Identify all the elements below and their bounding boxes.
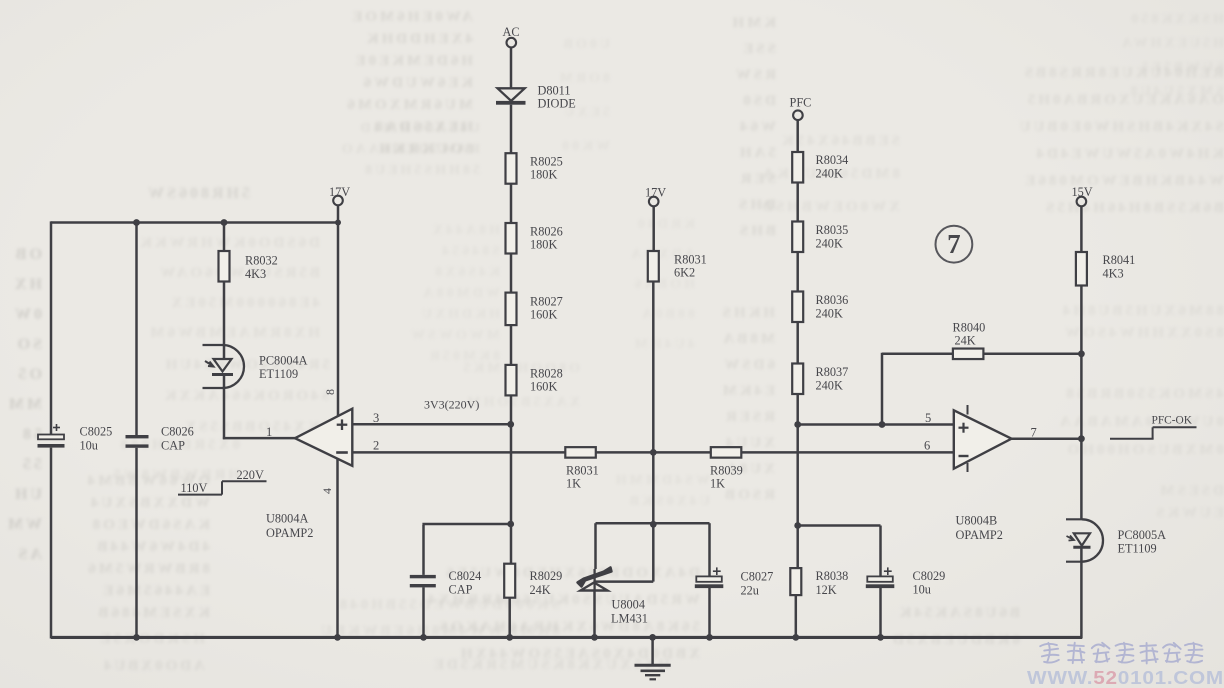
- junction bus / R8038: [792, 634, 799, 641]
- resistor R8034 240K: [792, 152, 848, 183]
- resistor R8036 240K: [792, 292, 848, 323]
- wire R8034 to R8035: [796, 183, 799, 222]
- wire opto PC8005A to ground bus: [1080, 547, 1083, 638]
- pin 1 label (op-amp U8004A output): [266, 425, 272, 439]
- capacitor C8024 CAP: [410, 569, 481, 597]
- node PFC terminal: [790, 96, 812, 120]
- junction top bus / 17V drop: [335, 220, 341, 226]
- capacitor C8029 10u (electrolytic): [866, 567, 945, 596]
- wire D8011 to R8025: [510, 105, 513, 154]
- resistor R8031 1K (horizontal): [565, 447, 598, 490]
- wire C8026 bottom lead: [135, 448, 138, 638]
- resistor R8028 160K: [506, 365, 563, 396]
- label node 3V3(220V): [424, 398, 479, 412]
- node 17V terminal (middle): [645, 186, 666, 207]
- resistor R8032 4K3: [219, 251, 278, 282]
- junction bus / LM431 anode: [591, 634, 598, 641]
- resistor R8029 24K: [504, 564, 562, 598]
- junction bus / R8029: [506, 634, 513, 641]
- wire R8025 to R8026: [510, 184, 513, 223]
- label circled figure 7: [936, 226, 973, 263]
- wire pin 3 (non-inverting input) to divider node: [352, 423, 511, 426]
- wire C8025 bottom lead: [50, 448, 53, 639]
- op-amp U8004B (comparator, points right): [954, 405, 1012, 472]
- junction bus / op-amp pin4: [334, 634, 341, 641]
- wire between R8031 and R8039: [596, 451, 711, 454]
- wire pin 8 supply (17V rail down into op-amp top): [337, 223, 340, 417]
- wire pin 5 (non-inverting) line: [798, 423, 954, 426]
- wire LM431 cathode loop top: [596, 522, 710, 525]
- resistor R8039 1K (horizontal): [710, 447, 743, 490]
- wire pin 4 to ground bus: [336, 459, 339, 638]
- junction PFC divider / C8029 link: [794, 522, 801, 529]
- junction 6K2 branch / inverting bus: [650, 449, 657, 456]
- junction bus / C8029: [877, 634, 884, 641]
- wire C8027 bottom lead: [708, 588, 711, 637]
- wire R8028 down to R8029: [510, 395, 513, 563]
- resistor R8031 6K2: [648, 251, 707, 282]
- shunt regulator U8004 LM431: [578, 568, 648, 626]
- wire LM431 cathode drop: [594, 523, 597, 569]
- junction divider / C8024 jumper: [507, 521, 514, 528]
- wire C8026 top lead: [135, 223, 138, 436]
- optocoupler PC8005A ET1109 (LED side): [1066, 519, 1166, 561]
- wire R8036 to R8037: [796, 322, 799, 364]
- wire C8029 bottom lead: [879, 588, 882, 637]
- node 15V terminal: [1072, 185, 1093, 206]
- capacitor C8027 22u (electrolytic): [695, 523, 773, 597]
- wire C8029 link: [797, 526, 881, 577]
- wire R8027 to R8028: [510, 325, 513, 365]
- wire R8032 top lead: [223, 223, 226, 252]
- node PFC-OK output flag: [1110, 415, 1197, 439]
- wire 17V drop to top bus: [337, 205, 340, 222]
- resistor R8035 240K: [792, 222, 848, 253]
- capacitor C8025 10u (electrolytic): [38, 424, 113, 453]
- capacitor C8026 CAP: [126, 425, 194, 453]
- wire op-amp output to rail: [1011, 437, 1081, 440]
- pin 6 label: [924, 439, 930, 453]
- resistor R8041 4K3: [1076, 252, 1135, 286]
- wire R8040 feedback loop: [882, 353, 1081, 425]
- resistor R8025 180K: [506, 153, 563, 184]
- wire C8024 top jumper: [422, 524, 510, 575]
- node 220V/110V line-voltage step marks: [178, 468, 267, 495]
- wire PFC drop: [796, 120, 799, 152]
- wire R8038 bottom lead: [795, 595, 798, 637]
- junction bus / C8027: [706, 634, 713, 641]
- wire AC drop: [510, 47, 513, 88]
- label U8004A OPAMP2: [266, 512, 313, 541]
- resistor R8037 240K: [792, 364, 848, 395]
- wire R8041 down the output rail: [1080, 286, 1083, 519]
- wire 17V mid drop: [652, 206, 655, 251]
- ground symbol: [635, 665, 671, 679]
- junction output rail / op-amp output: [1078, 435, 1085, 442]
- pin 3 label: [373, 411, 379, 425]
- resistor R8038 12K: [790, 568, 848, 597]
- pin 7 label: [1031, 426, 1037, 440]
- pin 5 label: [925, 411, 931, 425]
- junction top bus / C8026: [133, 219, 140, 226]
- wire LM431 anode to bus: [593, 591, 596, 638]
- junction bus / C8026: [133, 634, 140, 641]
- junction pin5 / R8040 feedback: [879, 421, 886, 428]
- diode D8011 DIODE: [496, 84, 576, 111]
- node AC terminal: [503, 25, 520, 47]
- resistor R8040 24K (horizontal): [953, 321, 986, 360]
- junction bus / ground stem: [649, 634, 656, 641]
- wire 15V drop: [1080, 206, 1083, 252]
- junction PFC divider / pin5 line: [794, 421, 801, 428]
- wire top bus 17V rail: [51, 221, 338, 223]
- junction output rail / R8040: [1078, 350, 1085, 357]
- junction top bus / R8032: [221, 219, 228, 226]
- watermark url line: [1027, 668, 1224, 688]
- label U8004B OPAMP2: [956, 514, 1003, 543]
- junction bus / C8024: [420, 634, 427, 641]
- wire R8026 to R8027: [510, 254, 513, 293]
- junction divider tap / pin3: [507, 421, 514, 428]
- resistor R8026 180K: [506, 223, 563, 254]
- wire LM431 ref line: [595, 580, 654, 583]
- wire R8031 6K2 down to bus: [652, 282, 655, 582]
- optocoupler PC8004A ET1109 (LED side): [203, 345, 308, 388]
- wire ground stem: [651, 637, 654, 664]
- wire R8032 to optocoupler LED: [223, 282, 226, 360]
- pin 4 label (rotated): [320, 488, 334, 494]
- resistor R8027 160K: [506, 293, 563, 326]
- node 17V terminal (left): [329, 185, 350, 205]
- wire bottom ground bus: [51, 636, 1082, 639]
- wire C8024 bottom lead: [422, 587, 425, 637]
- op-amp U8004A (comparator, points left): [295, 409, 352, 466]
- wire R8035 to R8036: [796, 252, 799, 292]
- wire R8029 bottom lead: [508, 598, 511, 638]
- pin 8 label (rotated): [323, 389, 337, 395]
- pin 2 label: [373, 439, 379, 453]
- wire R8039 to op-amp U8004B pin 6: [741, 451, 954, 454]
- wire R8037 down to R8038: [796, 394, 799, 568]
- wire left column upper (C8025 top lead): [50, 221, 53, 434]
- junction 6K2 branch / LM431 top loop: [650, 521, 657, 528]
- wire opto LED to op-amp output node: [223, 375, 296, 440]
- wire pin 2 (inverting input) to R8031: [352, 451, 566, 454]
